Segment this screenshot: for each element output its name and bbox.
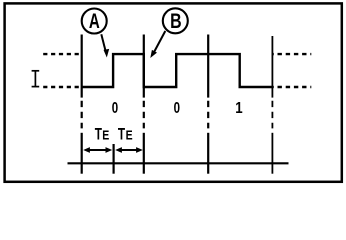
wire: dashed continuation right, low level bbox=[273, 86, 312, 88]
amplitude I-beam marker bbox=[32, 71, 40, 87]
svg-text:0: 0 bbox=[112, 100, 118, 117]
wire: dashed continuation right, high level bbox=[273, 53, 312, 55]
svg-text:0: 0 bbox=[174, 100, 180, 117]
svg-text:1: 1 bbox=[235, 100, 243, 117]
half-bit tick bbox=[112, 144, 114, 174]
dimension arrow TE span 1 bbox=[83, 147, 112, 153]
bit-cell boundary line 4 bbox=[271, 36, 273, 174]
svg-text:A: A bbox=[89, 9, 100, 33]
bit-cell boundary line 2 bbox=[143, 35, 145, 174]
label TE (second half-bit) bbox=[118, 124, 133, 143]
bit-cell boundary line 1 bbox=[81, 35, 83, 174]
dimension arrow TE span 2 bbox=[115, 147, 143, 153]
svg-text:B: B bbox=[170, 9, 182, 33]
border frame bbox=[5, 3, 342, 181]
svg-text:T: T bbox=[118, 124, 126, 143]
svg-text:E: E bbox=[126, 128, 133, 142]
svg-text:E: E bbox=[102, 128, 109, 142]
label TE (first half-bit) bbox=[95, 124, 110, 143]
arrow from B to bit-boundary transition bbox=[150, 31, 165, 58]
arrow from A to mid-bit transition bbox=[101, 34, 109, 57]
svg-text:T: T bbox=[95, 124, 103, 143]
wire: dashed continuation left, low level bbox=[43, 86, 79, 88]
node B: circled label B bbox=[163, 8, 188, 33]
bit-cell boundary line 3 bbox=[207, 35, 209, 174]
time axis bbox=[68, 162, 289, 164]
node A: circled label A bbox=[82, 9, 107, 34]
wire: dashed continuation left, high level bbox=[43, 53, 79, 55]
wire: Manchester waveform solid trace bbox=[82, 54, 273, 87]
